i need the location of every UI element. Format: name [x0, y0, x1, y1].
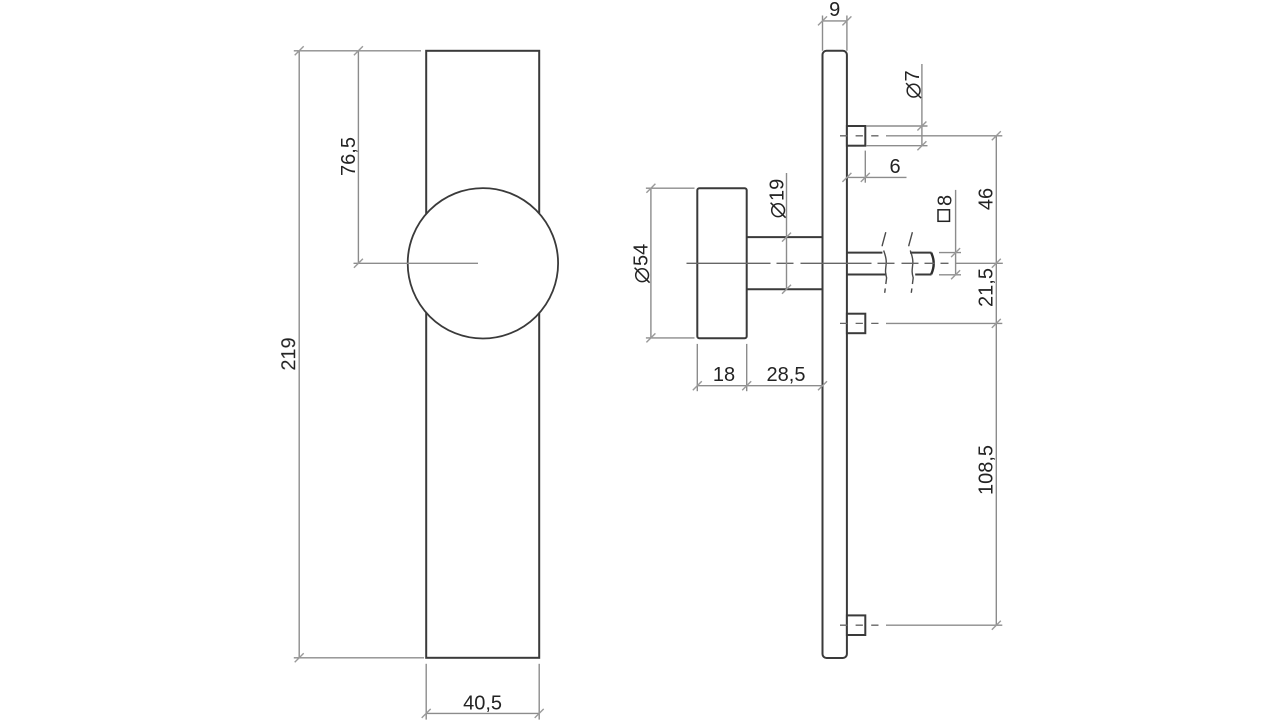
tick	[861, 173, 870, 182]
dimension 219 line	[298, 51, 300, 658]
tick	[535, 709, 544, 718]
dimension Ø54 extension bottom	[646, 337, 695, 339]
knob neck top line	[747, 236, 823, 238]
tick	[992, 131, 1001, 140]
dimension column 46 / 21,5 / 108,5 line	[995, 136, 997, 625]
middle boss centre line dashed	[840, 322, 879, 324]
tick	[992, 621, 1001, 630]
svg-text:9: 9	[829, 0, 840, 21]
svg-text:21,5: 21,5	[976, 268, 998, 307]
label Ø54	[631, 244, 653, 283]
tick	[646, 333, 655, 342]
extension line bottom	[294, 657, 424, 659]
svg-text:219: 219	[278, 337, 300, 370]
bottom screw boss	[847, 615, 865, 635]
dimension Ø54 extension top	[646, 187, 695, 189]
dimension 9 line	[823, 20, 847, 22]
dimension Ø54 line	[650, 188, 652, 338]
svg-text:19: 19	[767, 179, 789, 201]
centre line stub to dimension column	[955, 262, 1003, 264]
tick	[951, 248, 960, 257]
tick	[742, 381, 751, 390]
label Ø7	[902, 70, 924, 98]
label square symbol	[938, 210, 950, 222]
dimension 18 / 28,5 line	[697, 385, 822, 387]
tick	[782, 285, 791, 294]
spindle segment A top	[847, 252, 883, 254]
knob neck bottom line	[747, 288, 823, 290]
svg-text:6: 6	[889, 156, 900, 178]
tick	[782, 233, 791, 242]
svg-text:108,5: 108,5	[976, 445, 998, 495]
dimension 9 extension left	[822, 16, 824, 51]
tick	[951, 270, 960, 279]
tick	[295, 46, 304, 55]
centre line through spindle	[687, 262, 951, 264]
tick	[917, 122, 926, 131]
dimension 6 extension	[864, 151, 866, 183]
dimension Ø7 extension bottom	[867, 145, 928, 147]
middle boss centre line solid	[886, 322, 1002, 324]
dimension square-8 extension bottom	[939, 274, 961, 276]
tick	[354, 46, 363, 55]
dimension Ø19 line	[786, 173, 788, 289]
break line 1	[882, 232, 886, 293]
bottom boss centre line solid	[886, 624, 1002, 626]
backplate front outline	[426, 51, 539, 658]
tick	[646, 184, 655, 193]
knob bottom extension right	[746, 344, 748, 391]
knob bottom extension left	[696, 344, 698, 391]
tick	[992, 319, 1001, 328]
svg-text:8: 8	[935, 195, 957, 206]
break line 2	[909, 232, 913, 293]
dimension Ø7 line	[921, 64, 923, 146]
leader to knob centre (76,5)	[354, 262, 479, 264]
top screw boss	[847, 126, 865, 146]
spindle segment B bottom	[915, 274, 931, 276]
label Ø19	[767, 179, 789, 218]
svg-text:28,5: 28,5	[767, 364, 806, 386]
top boss centre line solid	[886, 135, 1002, 137]
dimension square-8 extension top	[939, 252, 961, 254]
tick	[422, 709, 431, 718]
tick	[992, 259, 1001, 268]
extension lines 40,5	[425, 664, 427, 720]
dimension 76,5 line	[357, 51, 359, 263]
dimension 6 line	[847, 176, 907, 178]
dimension 40,5 line	[426, 712, 539, 714]
spindle end cap arc	[931, 253, 934, 274]
svg-text:40,5: 40,5	[463, 693, 502, 715]
backplate side outline	[823, 51, 847, 658]
tick	[295, 653, 304, 662]
dimension Ø7 extension top	[867, 125, 928, 127]
top boss centre line dashed	[840, 135, 879, 137]
knob circle	[408, 188, 558, 338]
svg-text:76,5: 76,5	[338, 137, 360, 176]
spindle segment A bottom	[847, 274, 887, 276]
spindle segment B top	[910, 252, 932, 254]
dimension 9 extension right	[846, 16, 848, 51]
svg-text:7: 7	[902, 70, 924, 81]
tick	[917, 141, 926, 150]
dimension square-8 line	[955, 190, 957, 275]
svg-text:54: 54	[631, 244, 653, 266]
svg-text:18: 18	[713, 364, 735, 386]
tick	[818, 381, 827, 390]
tick	[818, 16, 827, 25]
middle screw boss	[847, 314, 865, 334]
tick	[693, 381, 702, 390]
tick	[354, 259, 363, 268]
svg-text:46: 46	[976, 188, 998, 210]
extension line top	[294, 50, 421, 52]
knob side outline	[697, 188, 746, 338]
tick	[842, 173, 851, 182]
bottom boss centre line dashed	[840, 624, 879, 626]
tick	[842, 16, 851, 25]
